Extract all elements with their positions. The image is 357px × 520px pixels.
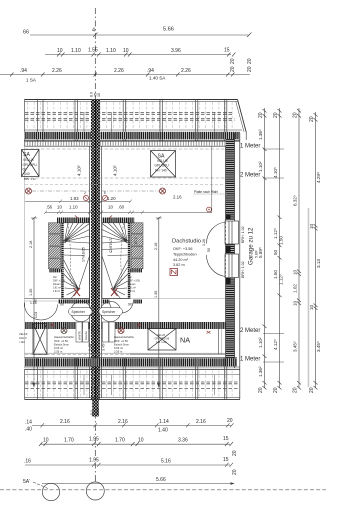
svg-text:GPL/GPU: GPL/GPU bbox=[155, 164, 170, 168]
svg-text:10: 10 bbox=[108, 205, 113, 210]
svg-text:GPL/GPU: GPL/GPU bbox=[23, 163, 38, 167]
svg-text:20: 20 bbox=[230, 66, 236, 72]
svg-text:Flur: Flur bbox=[128, 276, 132, 279]
svg-text:.56: .56 bbox=[46, 205, 53, 210]
svg-text:1.20: 1.20 bbox=[107, 196, 116, 201]
Hauswirtschaftsraum text left bbox=[54, 335, 75, 354]
svg-text:1.10: 1.10 bbox=[106, 48, 116, 54]
svg-text:Fliesen: Fliesen bbox=[128, 284, 136, 286]
svg-text:Speicher: Speicher bbox=[102, 310, 116, 314]
svg-text:140 / 140: 140 / 140 bbox=[156, 341, 167, 344]
svg-text:BRH: 1.02: BRH: 1.02 bbox=[241, 226, 245, 243]
svg-text:1 Meter: 1 Meter bbox=[240, 144, 260, 150]
svg-text:4.12⁵: 4.12⁵ bbox=[273, 339, 278, 350]
svg-text:17x18/25: 17x18/25 bbox=[109, 238, 113, 253]
svg-text:1.55: 1.55 bbox=[88, 48, 98, 54]
gray pencil line bbox=[308, 208, 310, 387]
cupboard cells right of right stair bbox=[131, 223, 143, 269]
svg-text:BRH: 1.02: BRH: 1.02 bbox=[241, 261, 245, 278]
svg-text:3.45⁵: 3.45⁵ bbox=[102, 342, 106, 351]
top dimension row 2 bbox=[45, 53, 236, 57]
svg-text:1.10²: 1.10² bbox=[258, 161, 263, 172]
svg-text:10: 10 bbox=[123, 48, 129, 54]
Speicher circle right bbox=[100, 301, 120, 321]
svg-text:10: 10 bbox=[309, 223, 314, 229]
svg-text:1.14: 1.14 bbox=[159, 419, 169, 425]
svg-text:1.26: 1.26 bbox=[202, 239, 206, 246]
svg-text:20: 20 bbox=[273, 387, 279, 393]
party wall bbox=[91, 100, 100, 401]
bottom dimension row C bbox=[25, 464, 230, 466]
svg-text:.14: .14 bbox=[25, 420, 32, 426]
tiny rotated dims above party wall bbox=[90, 92, 101, 97]
svg-text:3.45⁵: 3.45⁵ bbox=[293, 341, 298, 352]
Speicher circle left bbox=[71, 301, 91, 321]
svg-text:/ 140: / 140 bbox=[19, 340, 25, 344]
svg-text:90: 90 bbox=[128, 303, 132, 307]
svg-text:20: 20 bbox=[227, 418, 233, 424]
Hauswirtschaftsraum text right bbox=[114, 335, 135, 354]
svg-text:4.10²: 4.10² bbox=[113, 165, 118, 176]
left vertical dim line bbox=[33, 218, 35, 387]
svg-text:1.01: 1.01 bbox=[34, 312, 38, 318]
right vertical dimension chain 1 bbox=[263, 108, 267, 390]
small duct boxes next to party wall bbox=[76, 322, 115, 342]
svg-text:Estrich 5mm: Estrich 5mm bbox=[54, 343, 70, 347]
svg-text:2.18: 2.18 bbox=[29, 241, 33, 248]
svg-text:66: 66 bbox=[23, 30, 29, 36]
rafter posts in top band bbox=[38, 100, 227, 146]
svg-text:2.16: 2.16 bbox=[196, 419, 206, 425]
svg-text:9.06 m²: 9.06 m² bbox=[54, 346, 63, 350]
svg-text:VELUX: VELUX bbox=[157, 159, 169, 163]
svg-text:1.10: 1.10 bbox=[69, 205, 78, 210]
rafters top band bbox=[28, 102, 233, 130]
svg-text:10: 10 bbox=[57, 205, 62, 210]
bottom eaves overhang band bbox=[25, 373, 240, 375]
svg-text:1.95: 1.95 bbox=[89, 458, 99, 464]
svg-text:10: 10 bbox=[293, 300, 298, 306]
svg-text:2.16: 2.16 bbox=[173, 195, 182, 200]
svg-text:10: 10 bbox=[97, 93, 101, 97]
VELUX box left bottom bbox=[33, 324, 47, 355]
svg-text:3.13: 3.13 bbox=[316, 259, 321, 268]
grid bubble B bbox=[86, 482, 104, 500]
svg-text:2.26: 2.26 bbox=[52, 68, 62, 74]
svg-text:.16: .16 bbox=[24, 459, 31, 465]
top eaves overhang band bbox=[25, 100, 247, 147]
svg-text:.94: .94 bbox=[20, 68, 27, 74]
stair top walls bbox=[57, 218, 90, 223]
bottom dimension row B bbox=[40, 443, 230, 445]
svg-text:.60: .60 bbox=[118, 205, 125, 210]
right vertical dimension chain 2 bbox=[278, 108, 282, 390]
svg-text:Hauswirtschaftsr.: Hauswirtschaftsr. bbox=[54, 335, 75, 339]
svg-text:Flur: Flur bbox=[53, 276, 57, 279]
svg-text:20: 20 bbox=[293, 112, 299, 118]
svg-text:1.35: 1.35 bbox=[29, 289, 33, 296]
window swing arcs bbox=[206, 222, 225, 277]
svg-text:3.61 m²: 3.61 m² bbox=[128, 287, 136, 290]
svg-text:2 Meter: 2 Meter bbox=[240, 173, 260, 179]
svg-text:20: 20 bbox=[309, 387, 315, 393]
svg-text:2.18: 2.18 bbox=[154, 243, 158, 250]
gray mid dashed line bbox=[25, 184, 226, 186]
cupboard cells left of left stair bbox=[49, 223, 61, 269]
svg-text:VELUX: VELUX bbox=[23, 158, 35, 162]
circle-x symbols HWR bbox=[61, 328, 67, 334]
svg-text:OKF: +3.56: OKF: +3.56 bbox=[128, 281, 141, 283]
right exterior wall with window openings bbox=[226, 139, 235, 220]
svg-text:06: 06 bbox=[23, 168, 27, 172]
svg-text:5A′: 5A′ bbox=[23, 479, 30, 485]
svg-text:2.55 m: 2.55 m bbox=[114, 350, 123, 354]
roof hip diagonal top-right bbox=[238, 100, 247, 133]
svg-text:1.36²: 1.36² bbox=[258, 366, 263, 377]
svg-text:20: 20 bbox=[230, 58, 236, 64]
svg-text:OKF: +0.56: OKF: +0.56 bbox=[114, 339, 128, 343]
svg-text:2 Meter: 2 Meter bbox=[240, 328, 260, 334]
svg-text:2.55 m: 2.55 m bbox=[54, 350, 63, 354]
svg-text:WM/TR: WM/TR bbox=[90, 324, 94, 333]
right inner vertical dim line bbox=[158, 218, 160, 387]
svg-text:3.62 m: 3.62 m bbox=[173, 263, 185, 267]
svg-text:2: 2 bbox=[84, 191, 86, 195]
svg-text:1.94 m: 1.94 m bbox=[128, 291, 135, 293]
window 2 right wall sill box bbox=[225, 254, 239, 278]
svg-text:Speicher: Speicher bbox=[72, 310, 86, 314]
svg-text:.94: .94 bbox=[147, 68, 154, 74]
svg-text:VELUX: VELUX bbox=[19, 332, 28, 336]
leader 5A bottom left bbox=[33, 482, 48, 489]
svg-text:5.66: 5.66 bbox=[163, 27, 174, 33]
svg-text:WM/TR: WM/TR bbox=[78, 331, 82, 340]
svg-text:1.02: 1.02 bbox=[293, 284, 298, 293]
svg-text:1.70: 1.70 bbox=[64, 438, 74, 444]
svg-text:2.26: 2.26 bbox=[114, 68, 124, 74]
shaft next to NA room bbox=[218, 322, 220, 354]
red N icon bbox=[170, 269, 178, 276]
svg-text:3.45⁵: 3.45⁵ bbox=[88, 342, 92, 351]
svg-text:94 / 140: 94 / 140 bbox=[155, 169, 167, 173]
svg-text:15: 15 bbox=[223, 436, 229, 442]
svg-text:20: 20 bbox=[232, 469, 238, 475]
2 Meter line top bbox=[25, 177, 226, 179]
svg-text:2.16: 2.16 bbox=[60, 419, 70, 425]
svg-text:20: 20 bbox=[273, 112, 279, 118]
wall stub left bbox=[49, 269, 63, 272]
svg-text:1.12⁵: 1.12⁵ bbox=[273, 228, 278, 239]
svg-text:1.70: 1.70 bbox=[115, 438, 125, 444]
small red marks bbox=[51, 324, 54, 327]
door arc left corridor bbox=[25, 305, 58, 321]
svg-text:20: 20 bbox=[247, 66, 253, 72]
Dachstudio text block right bbox=[172, 239, 201, 268]
1 Meter line bottom bbox=[263, 361, 284, 363]
bottom exterior wall bbox=[25, 352, 235, 354]
red stair arrows at top walls bbox=[75, 216, 112, 220]
svg-text:8.0: 8.0 bbox=[90, 410, 94, 415]
mid dimension row (1.93 / 1.20) bbox=[25, 201, 131, 203]
corridor bottom line of stairs bbox=[25, 298, 90, 300]
red symbols at party wall top bbox=[83, 195, 107, 200]
red X right stair bbox=[111, 288, 118, 296]
bottom dashed axis line bbox=[0, 489, 326, 491]
svg-text:90: 90 bbox=[60, 303, 64, 307]
svg-text:1.12⁵: 1.12⁵ bbox=[279, 274, 284, 285]
red X left stair bbox=[74, 288, 81, 296]
svg-text:20: 20 bbox=[258, 112, 264, 118]
svg-text:35.5: 35.5 bbox=[96, 408, 100, 415]
partition line right dwelling bbox=[211, 146, 213, 213]
svg-text:20: 20 bbox=[309, 116, 315, 122]
svg-text:Dachstudio: Dachstudio bbox=[172, 239, 201, 245]
1 Meter line top bbox=[25, 148, 226, 150]
svg-text:1.36³: 1.36³ bbox=[258, 129, 263, 140]
svg-text:OKF: +0.56: OKF: +0.56 bbox=[54, 339, 68, 343]
SA skylight box left bbox=[22, 150, 40, 177]
svg-text:3.96: 3.96 bbox=[171, 48, 181, 54]
svg-text:15: 15 bbox=[224, 48, 230, 54]
svg-text:BRV: 1.02: BRV: 1.02 bbox=[24, 177, 36, 181]
door arc right corridor bbox=[110, 303, 134, 313]
svg-text:4: 4 bbox=[92, 28, 95, 34]
svg-text:20: 20 bbox=[247, 58, 253, 64]
svg-text:2.26: 2.26 bbox=[181, 68, 191, 74]
centerline party-wall axis bbox=[94, 8, 96, 483]
svg-text:OKF: +3.56: OKF: +3.56 bbox=[173, 247, 193, 251]
svg-text:NA: NA bbox=[180, 336, 190, 345]
interior wall band above HWR bbox=[25, 322, 90, 329]
svg-text:1.95: 1.95 bbox=[89, 437, 99, 443]
svg-text:5.16: 5.16 bbox=[161, 459, 171, 465]
dashed purlin lines in top band bbox=[25, 113, 235, 121]
svg-text:Dusche: Dusche bbox=[97, 324, 101, 333]
VELUX box right bottom (NA room) bbox=[148, 329, 176, 351]
svg-text:Dusche: Dusche bbox=[84, 331, 88, 340]
right vertical dimension chain 3 bbox=[297, 108, 301, 390]
svg-text:20: 20 bbox=[232, 450, 238, 456]
svg-text:1 SA: 1 SA bbox=[26, 78, 37, 83]
svg-text:4.29⁸: 4.29⁸ bbox=[316, 172, 321, 183]
top dimension row 1 (5.66) bbox=[30, 33, 252, 38]
svg-text:3.36: 3.36 bbox=[178, 438, 188, 444]
svg-text:6.32⁵: 6.32⁵ bbox=[293, 195, 298, 206]
svg-text:10: 10 bbox=[138, 438, 144, 444]
svg-text:5.66: 5.66 bbox=[156, 477, 166, 483]
Flur text right bbox=[128, 276, 141, 293]
svg-text:Hauswirtschaftsr.: Hauswirtschaftsr. bbox=[114, 335, 135, 339]
svg-text:1.10: 1.10 bbox=[71, 48, 81, 54]
left crop edge line bbox=[24, 146, 26, 368]
mid dimension row 2 bbox=[45, 212, 212, 214]
svg-text:Fliesen: Fliesen bbox=[53, 284, 61, 286]
svg-text:9.06 m²: 9.06 m² bbox=[114, 346, 123, 350]
bottom dimension row A bbox=[32, 425, 231, 427]
svg-text:10: 10 bbox=[57, 48, 63, 54]
top exterior wall (dark hatched) bbox=[25, 129, 243, 131]
corridor wall band bbox=[58, 300, 90, 304]
electric dashed line with circle-x left bbox=[26, 188, 32, 194]
svg-text:1.40 SA: 1.40 SA bbox=[149, 76, 166, 81]
svg-text:50: 50 bbox=[273, 249, 278, 255]
right staircase bbox=[102, 223, 130, 299]
svg-text:1.40: 1.40 bbox=[158, 428, 168, 434]
red circle symbol right room bbox=[207, 207, 212, 212]
svg-text:.40: .40 bbox=[25, 427, 32, 433]
svg-text:Garage zu 12: Garage zu 12 bbox=[248, 227, 255, 265]
svg-text:GGL 6: GGL 6 bbox=[19, 336, 27, 340]
svg-text:10: 10 bbox=[43, 438, 49, 444]
svg-text:1.05: 1.05 bbox=[30, 301, 37, 305]
svg-text:/ 140: / 140 bbox=[23, 172, 30, 176]
svg-text:10: 10 bbox=[309, 304, 314, 310]
svg-text:1.94 m: 1.94 m bbox=[53, 291, 60, 293]
svg-text:1.93: 1.93 bbox=[70, 196, 79, 201]
svg-text:50: 50 bbox=[207, 248, 211, 252]
svg-text:5.89⁵: 5.89⁵ bbox=[258, 247, 263, 258]
svg-text:1.10²: 1.10² bbox=[258, 337, 263, 348]
svg-text:44.20 m²: 44.20 m² bbox=[173, 258, 189, 262]
svg-text:OKF: +3.56: OKF: +3.56 bbox=[53, 281, 66, 283]
svg-text:3.45⁵: 3.45⁵ bbox=[316, 341, 321, 352]
left staircase bbox=[62, 223, 90, 299]
grid bubble A bbox=[42, 483, 59, 500]
svg-text:2.18: 2.18 bbox=[134, 237, 138, 244]
svg-text:20: 20 bbox=[258, 387, 264, 393]
svg-text:1.50: 1.50 bbox=[279, 236, 284, 245]
svg-text:Platte nach Wahl: Platte nach Wahl bbox=[194, 190, 218, 194]
svg-text:1 Meter: 1 Meter bbox=[240, 357, 260, 363]
window 1 right wall sill box bbox=[225, 221, 239, 244]
svg-text:20: 20 bbox=[293, 387, 299, 393]
svg-text:1.35: 1.35 bbox=[154, 291, 158, 298]
rafters bottom band bbox=[28, 371, 233, 397]
SA skylight box right bbox=[151, 151, 176, 178]
top dimension row 3 bbox=[0, 73, 250, 77]
svg-text:4.10²: 4.10² bbox=[77, 165, 82, 176]
svg-text:Estrich 5mm: Estrich 5mm bbox=[114, 343, 130, 347]
svg-text:3.61 m²: 3.61 m² bbox=[53, 287, 61, 290]
svg-text:2.16: 2.16 bbox=[118, 419, 128, 425]
bottom dimension row D bbox=[42, 483, 234, 485]
svg-text:10: 10 bbox=[293, 269, 298, 275]
svg-text:15: 15 bbox=[223, 457, 229, 463]
svg-text:1.50: 1.50 bbox=[273, 270, 278, 279]
2 Meter line bottom bbox=[263, 333, 284, 335]
svg-text:17x18/25: 17x18/25 bbox=[82, 247, 86, 262]
svg-text:Teppichboden: Teppichboden bbox=[173, 253, 197, 257]
right vertical dimension chain 4 bbox=[314, 112, 318, 390]
Flur text left bbox=[53, 276, 66, 293]
svg-text:4.10⁵: 4.10⁵ bbox=[273, 167, 278, 178]
svg-text:5.89⁵: 5.89⁵ bbox=[255, 249, 259, 258]
